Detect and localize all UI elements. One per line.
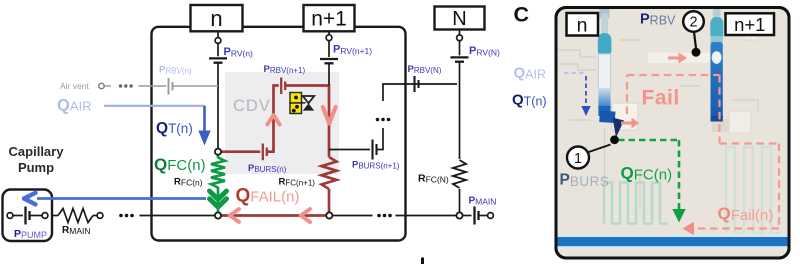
svg-text:Capillary: Capillary [9, 144, 65, 159]
svg-text:QAIR: QAIR [57, 97, 92, 115]
svg-text:CDV: CDV [233, 97, 271, 115]
svg-text:C: C [514, 3, 530, 27]
svg-text:n+1: n+1 [311, 8, 347, 31]
svg-text:PRBV(n): PRBV(n) [159, 65, 192, 76]
svg-text:Fail: Fail [642, 87, 680, 110]
svg-text:QAIR: QAIR [514, 65, 547, 82]
svg-text:PMAIN: PMAIN [469, 196, 497, 207]
svg-text:QFail(n): QFail(n) [718, 204, 774, 224]
svg-text:PBURS(n): PBURS(n) [248, 163, 287, 174]
svg-text:Pump: Pump [18, 160, 54, 175]
svg-text:PBURS(n+1): PBURS(n+1) [352, 160, 400, 171]
svg-text:1: 1 [574, 151, 582, 167]
svg-text:PRV(N): PRV(N) [469, 45, 500, 58]
svg-text:QFAIL(n): QFAIL(n) [236, 186, 300, 207]
svg-text:n+1: n+1 [734, 14, 765, 35]
svg-text:PBURS: PBURS [560, 172, 610, 190]
svg-text:Air vent: Air vent [60, 81, 89, 91]
svg-text:RMAIN: RMAIN [62, 225, 90, 236]
svg-text:PRV(n+1): PRV(n+1) [333, 44, 372, 57]
svg-text:RFC(N): RFC(N) [418, 173, 449, 185]
svg-text:RFC(n): RFC(n) [174, 177, 203, 188]
svg-text:N: N [452, 8, 466, 30]
svg-text:QT(n): QT(n) [156, 120, 193, 137]
svg-text:PPUMP: PPUMP [14, 228, 47, 240]
svg-text:QFC(n): QFC(n) [621, 164, 673, 184]
svg-text:2: 2 [689, 15, 697, 31]
svg-text:PRV(n): PRV(n) [224, 46, 254, 59]
svg-text:n: n [577, 15, 588, 37]
svg-text:n: n [210, 6, 222, 31]
svg-text:PRBV(n+1): PRBV(n+1) [264, 64, 306, 75]
svg-text:PRBV(N): PRBV(N) [408, 64, 442, 75]
svg-text:PRBV: PRBV [640, 12, 676, 28]
svg-text:QFC(n): QFC(n) [154, 155, 206, 174]
svg-text:QT(n): QT(n) [512, 92, 547, 109]
svg-text:RFC(n+1): RFC(n+1) [279, 177, 316, 188]
